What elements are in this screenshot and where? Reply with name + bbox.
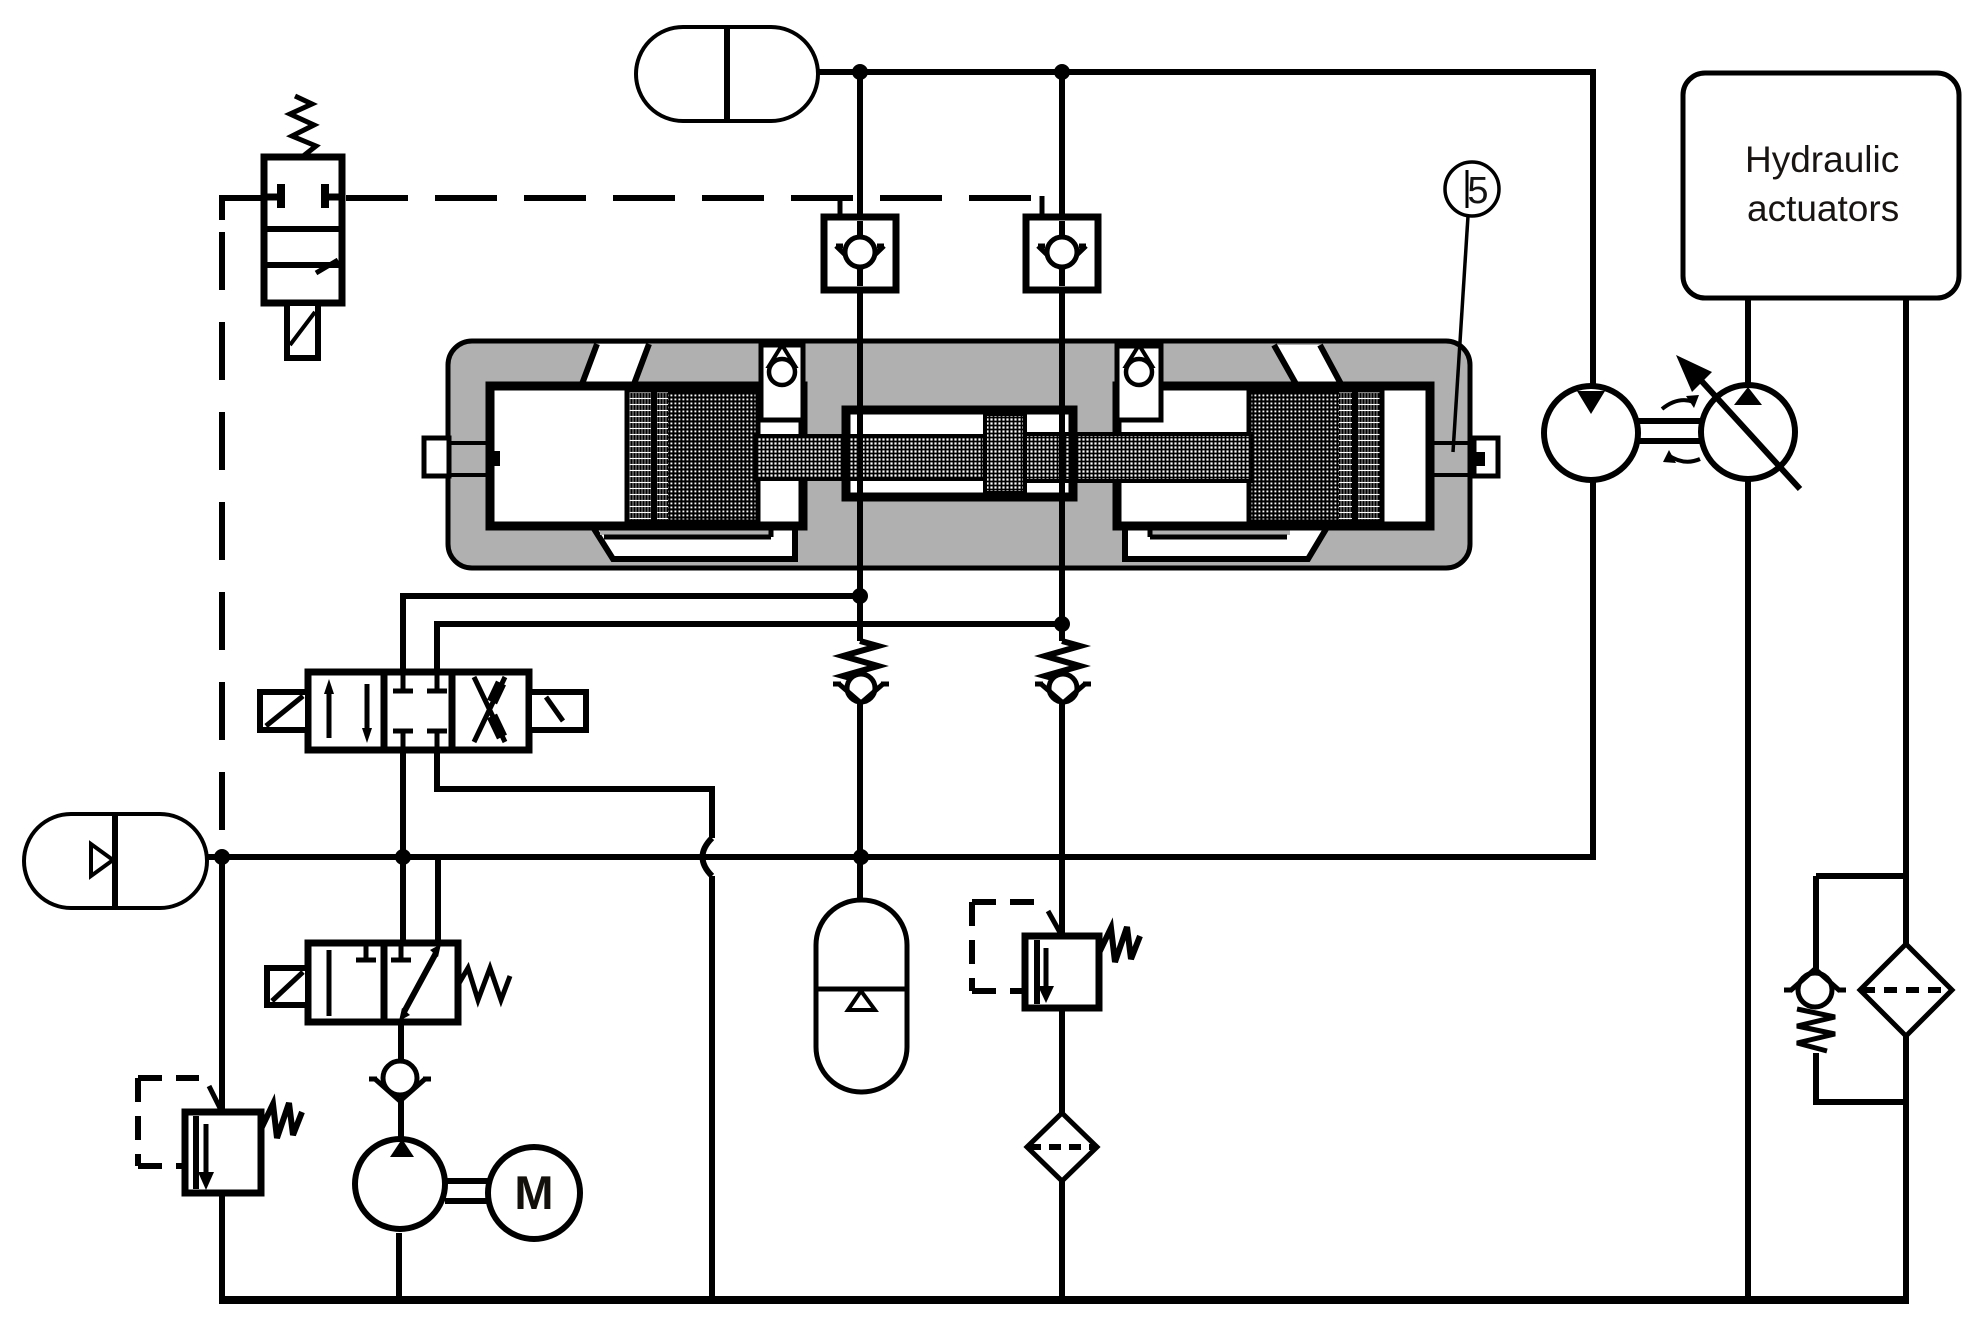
V3 spring: [458, 968, 510, 1000]
wire vertical A-line x=860 upper: [857, 72, 863, 218]
relief valve V4 (bottom left): [185, 1086, 261, 1193]
V2 left solenoid: [260, 692, 308, 730]
left cylinder bottom cavity: [591, 524, 795, 559]
piston rod right: [1025, 434, 1251, 481]
right piston striped section: [1339, 390, 1382, 522]
wire pump P3 to actuators box: [1745, 298, 1751, 388]
left port stub: [424, 438, 500, 476]
proportional valve V3 (2/2): [308, 943, 458, 1022]
wire right return x=1906 lower: [1903, 1033, 1909, 1300]
wire pump P1 down to bus: [396, 1233, 402, 1300]
right cylinder barrel: [1117, 386, 1430, 526]
label 5 balloon: [1445, 162, 1499, 216]
intensifier manifold body: [448, 341, 1470, 568]
check valve CV4 (bypass): [1784, 969, 1846, 1051]
spring check valve SV1: [833, 641, 889, 703]
V2 right solenoid: [529, 692, 586, 730]
pilot operated check valve CV1: [824, 217, 896, 290]
unloader valve V1 (top left): [264, 157, 342, 303]
V3 solenoid: [267, 968, 308, 1005]
wire cylinder B-port line y=624: [437, 624, 1062, 674]
electric motor M: [488, 1147, 580, 1239]
wire vertical B-line x=1062 upper: [1059, 72, 1065, 218]
hydraulic actuators box: [1683, 73, 1959, 298]
left piston crosshatch section: [668, 390, 758, 522]
wire pump P1 suction line: [398, 1022, 404, 1062]
V4 pilot dashed box: [138, 1078, 199, 1166]
gas accumulator A3: [816, 900, 907, 1092]
V2 center position blocked ports: [393, 675, 413, 691]
svg-text:M: M: [514, 1166, 553, 1219]
V5 spring: [1099, 927, 1140, 962]
wire V3 right top port riser: [435, 857, 441, 945]
pilot stub to CV1: [838, 196, 843, 218]
right port stub: [1430, 438, 1498, 476]
V4 spring: [261, 1103, 302, 1138]
shaft rotation arrows: [1662, 400, 1700, 462]
wire vertical B-line x=1062 through manifold: [1059, 289, 1065, 641]
piston rod left: [756, 436, 985, 479]
node accumulator bus x=222: [214, 849, 230, 865]
pilot stub to CV2: [1040, 196, 1045, 218]
svg-text:Hydraulic: Hydraulic: [1745, 139, 1899, 180]
node accumulator bus x=403: [395, 849, 411, 865]
node top bus A: [852, 64, 868, 80]
P2-P3 shaft: [1638, 421, 1701, 441]
node top bus B: [1054, 64, 1070, 80]
wire valve V2 bottom right port to drain column: [437, 748, 712, 838]
pilot operated check valve CV2: [1026, 217, 1098, 290]
pilot line dashed from V1 to check valves: [346, 195, 1040, 201]
filter F2: [1860, 944, 1952, 1036]
wire left supply below relief valve V4: [219, 1191, 225, 1300]
center block: [846, 410, 1073, 497]
spring check valve SV2: [1035, 641, 1091, 703]
manifold relief valve left: [761, 345, 803, 420]
wire CV4 bypass upper riser: [1813, 876, 1819, 969]
center divider: [985, 414, 1025, 493]
wire right return x=1906 upper: [1903, 298, 1909, 947]
V2 right position crossed arrows: [474, 677, 505, 742]
label 5 leader line: [1453, 216, 1468, 452]
V1 spring: [290, 96, 316, 157]
manifold relief valve right: [1117, 345, 1161, 420]
wire CV4 bypass lower riser: [1816, 1053, 1906, 1102]
wire vertical B-line x=1062 below filter: [1059, 1179, 1065, 1300]
manifold white slash right: [1274, 345, 1341, 384]
relief valve V5: [1025, 911, 1099, 1008]
wire vertical B-line x=1062 lower: [1059, 701, 1065, 938]
wire vertical A-line x=860 lower: [857, 701, 863, 900]
svg-text:5: 5: [1467, 170, 1488, 212]
left cylinder barrel: [490, 386, 803, 526]
wire line-jump arc at x=712 y=857: [703, 838, 713, 876]
variable pump P3: [1676, 355, 1800, 489]
directional valve V2 (4/3 solenoid): [308, 672, 529, 750]
wire vertical A-line x=860 through manifold: [857, 289, 863, 641]
wire valve V2 bottom left port down: [400, 748, 406, 945]
accumulator A2 (left): [24, 814, 207, 908]
V1 drain: [287, 303, 318, 358]
wire accumulator bus y=857: [205, 479, 1593, 857]
manifold white slash left: [582, 344, 649, 384]
hydraulic motor P2: [1544, 386, 1638, 480]
wire drain column x=712 lower: [709, 876, 715, 1300]
wire CV4 bypass top branch: [1816, 873, 1906, 879]
pilot line dashed vertical x=222: [219, 232, 225, 852]
right piston crosshatch section: [1249, 390, 1339, 522]
wire pump P3 down to bus: [1745, 477, 1751, 1300]
right cylinder bottom cavity: [1125, 524, 1329, 559]
V5 pilot dashed box: [972, 902, 1038, 991]
wire left supply x=222 solid: [219, 855, 225, 1114]
left piston striped section: [627, 390, 668, 522]
node A-line y=596: [852, 588, 868, 604]
check valve CV3: [369, 1061, 431, 1101]
wire bottom return bus: [219, 1296, 1909, 1304]
center block border overlay: [846, 410, 1073, 497]
pump P1: [355, 1139, 445, 1229]
wire top bus from accumulator to right down-corner: [818, 72, 1593, 391]
wire cylinder A-port line y=596: [403, 596, 860, 674]
V2 left position arrows: [329, 684, 367, 738]
wire vertical B-line x=1062 below relief valve: [1059, 1006, 1065, 1115]
node B-line y=624: [1054, 616, 1070, 632]
wire V1 left port to supply: [222, 198, 264, 220]
P1-M shaft: [445, 1181, 489, 1201]
wire check CV3 to pump P1: [398, 1098, 404, 1144]
filter F1: [1027, 1113, 1097, 1181]
node accumulator bus x=861: [853, 849, 869, 865]
accumulator A1 (top): [636, 27, 818, 121]
svg-text:actuators: actuators: [1747, 188, 1899, 229]
